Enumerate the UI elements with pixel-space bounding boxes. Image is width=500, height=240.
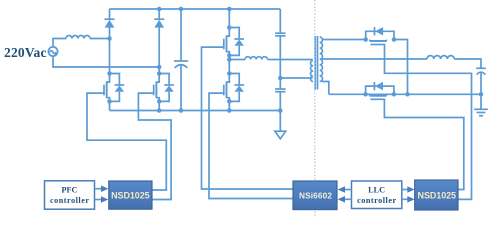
wire: Q3 gate to NSi6602 [202,47,294,189]
node: rail / Q2 [157,108,162,113]
wire: Lo to output cap [454,59,481,68]
svg-text:PFC: PFC [62,185,78,194]
wire: Q2 gate to NSD1025 #1 [138,93,171,199]
wire: Q4 source to bottom rail [228,101,230,110]
node: half-bridge midpoint [227,57,232,62]
MOSFET Q4 (LLC low side) [224,71,244,103]
transformer T1 [311,36,323,90]
wire: Q5 gate to NSD1025 #2 [385,45,472,200]
ground: output return [474,94,488,115]
arrow: PFC controller to NSD1025 #1 (lower) [95,199,102,201]
wire: rail to Q3 drain [228,9,230,28]
svg-text:controller: controller [50,196,89,205]
wire: Q4 gate to NSi6602 [209,93,293,198]
node: rail / C2 / ground [278,108,283,113]
svg-text:LLC: LLC [368,185,385,194]
wire: secondary center tap to Lo [322,58,427,60]
node: rail / Q4 [227,108,232,113]
inductor L1 (input choke) [66,36,90,39]
sync MOSFET Q5 [363,27,396,44]
arrow: PFC controller to NSD1025 #1 (upper) [95,188,102,190]
node: rail / C1 [179,7,184,12]
wire: output negative rail [329,93,481,95]
box: NSD1025 #1 [109,181,152,209]
diode D2 [154,9,164,67]
node: negative rail / C3 / ground [479,92,484,97]
node B: AC / D2 / Q2 [157,65,162,70]
wire: node A to Q1 drain [109,39,111,74]
node: rail / Q3 leg [227,7,232,12]
MOSFET Q1 (PFC low side left) [104,71,124,103]
wire: Q6 gate to NSD1025 #2 [384,100,463,190]
wire: bottom DC rail [110,110,281,112]
wire: AC bottom lead [53,56,159,67]
wire: Q5 right node to negative rail [394,40,408,95]
diode D1 [105,9,115,39]
arrow: LLC controller to NSD1025 #2 (lower) [402,198,408,200]
node: rail / D2 [157,7,162,12]
capacitor C3 (output) [476,68,486,94]
wire: primary return [280,77,312,79]
box: NSi6602 [293,181,337,210]
wire: Q1 source to bottom rail [109,101,111,110]
ground: PFC bottom rail [275,111,286,139]
wire: Q1 gate to NSD1025 #1 [87,93,166,190]
wire: secondary bottom lead [322,82,329,95]
node: Q5 drop / negative rail [405,92,410,97]
svg-text:NSD1025: NSD1025 [111,191,150,201]
box: NSD1025 #2 [415,180,458,210]
wire: secondary top lead [322,39,366,41]
svg-text:NSi6602: NSi6602 [299,190,332,200]
box: LLC controller [352,181,402,209]
MOSFET Q2 (PFC low side right) [154,71,174,103]
svg-text:controller: controller [357,196,396,205]
box: PFC controller [45,181,95,209]
wire: Q3 source to midpoint [228,55,230,59]
wire: midpoint to Q4 drain [228,60,230,74]
capacitor C1 (bulk electrolytic) [174,9,188,111]
inductor Lo (output) [427,56,454,59]
wire: Q2 source to bottom rail [158,101,160,110]
sync MOSFET Q6 [363,82,396,99]
node: rail / C1 [179,108,184,113]
MOSFET Q3 (LLC high side) [224,25,244,57]
wire: midpoint to Lr [229,59,245,61]
arrow: LLC controller to NSi6602 (lower) [345,198,352,200]
dotted isolation barrier line [314,0,316,218]
wire: right leg of top rail into resonant caps [279,9,281,33]
wire: L1 to node A [90,38,110,40]
wire: AC top lead [53,39,66,47]
capacitor C2a (resonant cap upper) [275,33,285,78]
svg-text:220Vac: 220Vac [4,45,47,60]
arrow: LLC controller to NSi6602 (upper) [345,189,352,191]
AC source V1 [48,47,57,56]
inductor Lr (resonant) [245,57,267,60]
svg-text:NSD1025: NSD1025 [418,191,457,201]
arrow: LLC controller to NSD1025 #2 (upper) [402,189,408,191]
wire: Lr to transformer primary top [267,59,312,61]
node A: L1 / D1 / Q1 [107,36,112,41]
node: C2 midpoint / primary return [278,76,283,81]
wire: node B to Q2 drain [158,67,160,74]
capacitor C2b (resonant cap lower) [275,78,285,111]
wire: top DC rail [110,8,281,10]
